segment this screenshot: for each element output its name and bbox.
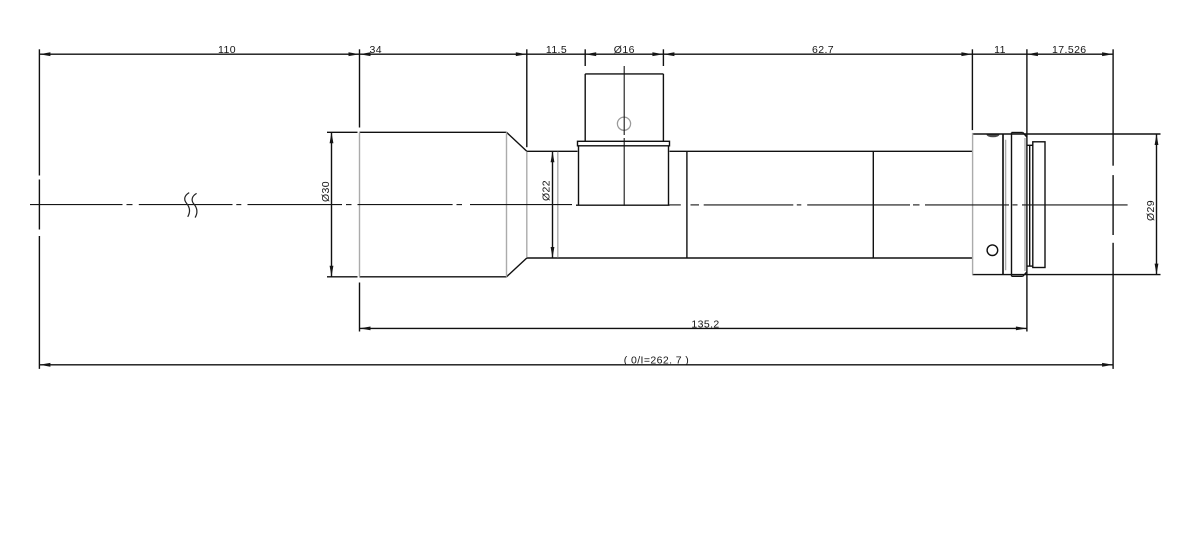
top chained dimension line (39, 53, 1113, 55)
svg-text:11.5: 11.5 (546, 44, 567, 56)
svg-text:Ø22: Ø22 (541, 180, 553, 201)
D22 tube front face gray edge (526, 152, 528, 258)
D30 dimension line (331, 132, 333, 276)
dimension arrowheads (39, 52, 1158, 366)
break squiggle on centerline (185, 193, 197, 218)
rear flange block (1002, 134, 1004, 275)
svg-text:11: 11 (994, 44, 1006, 56)
D16 post top (585, 73, 663, 75)
tube joint line 2 (872, 151, 874, 258)
D29 extension lines (972, 134, 1160, 275)
extension line + front face of D22 tube x=526.8 (526, 49, 528, 147)
extension line image plane x=1113.1 (1112, 49, 1114, 369)
arrow 62.7 right (961, 52, 972, 56)
arrow O/I left (39, 363, 50, 367)
arrow 34 right (516, 52, 527, 56)
extension line + right side of D16 post x=663.4 (662, 49, 664, 66)
narrow ring divider (1002, 134, 1004, 275)
arrow 135.2 left (360, 327, 371, 331)
arrow D22 bottom (551, 247, 555, 258)
rear flange left gray edge (972, 133, 974, 275)
internal lens edge gray near D22 dim (557, 152, 559, 258)
dimension line 135.2 (360, 327, 1027, 329)
arrow D30 top (330, 132, 334, 143)
arrow 34 left (360, 52, 371, 56)
arrow 62.7 left (663, 52, 674, 56)
extension line + ring right face x=1026.9 (1026, 49, 1028, 331)
svg-text:Ø29: Ø29 (1145, 200, 1157, 221)
arrow D30 bottom (330, 266, 334, 277)
side hole circle on flange (987, 245, 998, 256)
flange gray edge 1 (1005, 140, 1007, 271)
post clamp block (576, 146, 670, 205)
spacer ring (1027, 145, 1033, 266)
arrow 17.526 right (1102, 52, 1113, 56)
arrow O/I right (1102, 363, 1113, 367)
gray body edge lines (360, 132, 1026, 276)
extension line at flange left face x=972.4 (971, 49, 973, 130)
svg-text:Ø30: Ø30 (320, 181, 332, 202)
svg-text:110: 110 (218, 44, 236, 56)
large cylinder left gray edge (359, 132, 361, 276)
flange gray edge 2 (1024, 138, 1026, 271)
arrow D29 bottom (1155, 264, 1159, 275)
post flange plate (578, 141, 670, 146)
arrow D29 top (1155, 134, 1159, 145)
D22 tube outline (527, 151, 973, 258)
set screw ellipse on flange top (987, 134, 1000, 137)
svg-text:135.2: 135.2 (691, 318, 719, 330)
D29 dimension line (1156, 134, 1158, 275)
arrow D22 top (551, 151, 555, 162)
front mount ring (1033, 142, 1045, 268)
arrow 135.2 right (1016, 327, 1027, 331)
svg-text:Ø16: Ø16 (614, 44, 635, 56)
lens body large cylinder D30 outline (360, 132, 527, 276)
D29 ring with chamfered corners (1012, 133, 1027, 277)
dimension line O/I=262.7 (39, 364, 1113, 366)
arrow D16 right (652, 52, 663, 56)
arrow 17.526 left (1027, 52, 1038, 56)
horizontal optical axis centerline (30, 204, 1128, 206)
large cylinder right gray edge (506, 132, 508, 276)
svg-text:34: 34 (370, 44, 382, 56)
extension line + left side of D16 post x=585.2 (584, 49, 586, 66)
D30 extension lines (327, 132, 358, 276)
tube joint line 1 (686, 151, 688, 258)
dimension texts (218, 44, 1157, 367)
post vertical centerline (623, 66, 625, 206)
arrow 110 left (39, 52, 50, 56)
D22 dimension line (552, 151, 554, 258)
arrow D16 left (585, 52, 596, 56)
arrow 110 right (349, 52, 360, 56)
svg-text:17.526: 17.526 (1052, 44, 1087, 56)
post screw hole circle gray (617, 117, 630, 130)
extension line at body front face x=359.5 (359, 49, 361, 331)
svg-text:( 0/I=262. 7 ): ( 0/I=262. 7 ) (624, 355, 689, 367)
extension line left (object plane) (38, 49, 40, 369)
narrow ring right edge (1011, 133, 1013, 277)
svg-text:62.7: 62.7 (812, 44, 834, 56)
